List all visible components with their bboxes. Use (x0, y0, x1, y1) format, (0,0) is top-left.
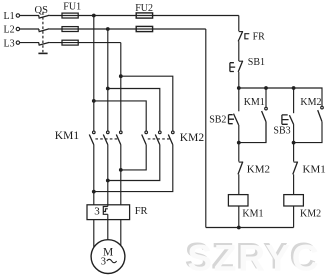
contactor KM2 pole 2 (155, 131, 161, 145)
node L3 terminal (16, 41, 19, 44)
node L1 terminal (16, 14, 19, 17)
node rail-SB3 (292, 86, 296, 90)
switch QS pole 3 (39, 42, 50, 45)
contactor KM1 linkage (95, 138, 119, 140)
svg-text:3: 3 (101, 257, 106, 268)
wire KM2 pole3 return to A (94, 145, 173, 192)
thermal contact FR NC (238, 31, 249, 41)
svg-text:KM2: KM2 (300, 97, 321, 108)
node coil-rail junction (237, 226, 241, 230)
wire crossover B to KM2 pole2 (108, 89, 160, 132)
node rev join (292, 141, 296, 145)
svg-text:FR: FR (253, 31, 266, 42)
fuse FU1c (62, 40, 78, 45)
wire L2 row (20, 28, 39, 30)
node C crossover junction (119, 74, 123, 78)
wire control top rail (239, 88, 322, 106)
wire fwd pair join (239, 122, 266, 143)
fuse FU2b (136, 26, 152, 31)
wire crossover C to KM2 pole1 (121, 76, 173, 131)
wire phase A vertical upper (93, 16, 95, 132)
node B-L2 junction (106, 27, 110, 31)
contactor KM2 pole 1 (142, 131, 148, 145)
switch QS handle (38, 52, 47, 54)
coil KM1 (228, 195, 248, 206)
wire L1 row after switch (49, 15, 239, 17)
node C return junction (119, 168, 123, 172)
wire crossover A to KM2 pole3 (94, 101, 146, 131)
switch QS linkage (42, 12, 44, 52)
wire C to motor (120, 220, 122, 246)
wire KM2 pole1 return to C (121, 145, 146, 170)
pushbutton SB3 NO start rev (282, 88, 294, 143)
interlock KM2 NC (238, 143, 243, 195)
interlock KM1 NC (293, 143, 298, 195)
svg-text:L3: L3 (4, 38, 15, 49)
wire phase C vertical upper (120, 43, 122, 132)
svg-text:KM2: KM2 (180, 132, 205, 144)
wire FR to SB1 (238, 41, 240, 61)
motor M (91, 240, 125, 274)
wire KM2 pole2 return to B (108, 145, 160, 181)
pushbutton SB2 NO start fwd (229, 88, 239, 143)
contactor KM1 pole 3 (116, 131, 122, 145)
svg-text:L1: L1 (4, 11, 15, 22)
wire bottom rail (206, 227, 294, 229)
wire L3 row (20, 42, 39, 44)
svg-text:SZRYC: SZRYC (187, 237, 320, 278)
wire L2 return rail (205, 29, 207, 228)
node B crossover junction (106, 87, 110, 91)
wire phase C vertical lower (120, 145, 122, 205)
contactor KM2 pole 3 (168, 131, 174, 145)
wire phase B vertical lower (107, 145, 109, 207)
switch QS pole 1 (39, 15, 50, 18)
wire phase A vertical lower (93, 145, 95, 205)
pushbutton SB1 NC stop (230, 61, 243, 72)
svg-text:KM2: KM2 (247, 163, 270, 175)
svg-text:FR: FR (135, 206, 148, 217)
svg-text:KM1: KM1 (242, 208, 263, 219)
wire L1 row (20, 15, 39, 17)
svg-text:3: 3 (94, 206, 100, 218)
svg-text:SB1: SB1 (248, 57, 265, 68)
wire phase B vertical upper (107, 29, 109, 131)
svg-text:KM2: KM2 (300, 209, 321, 220)
fuse FU1b (62, 27, 78, 32)
coil KM2 (284, 195, 304, 206)
node B return junction (106, 179, 110, 183)
svg-text:FU1: FU1 (63, 2, 81, 13)
FR heater element (103, 207, 108, 215)
wire L2 row after switch (49, 28, 206, 30)
aux contact KM2 NO (294, 106, 324, 142)
node rail-SB2 (237, 86, 241, 90)
wire L1 control drop (238, 16, 240, 32)
svg-text:SB2: SB2 (209, 115, 226, 126)
fuse FU1a (62, 13, 78, 18)
thermal relay FR heater box (87, 205, 130, 220)
svg-text:L2: L2 (4, 25, 15, 36)
contactor KM1 pole 1 (89, 131, 95, 145)
contactor KM1 pole 2 (103, 131, 109, 145)
node A crossover junction (92, 99, 96, 103)
wire KM1 coil to bottom rail (238, 206, 240, 228)
node A-L1 junction (92, 14, 96, 18)
svg-text:FU2: FU2 (135, 3, 153, 14)
svg-text:SB3: SB3 (273, 126, 290, 137)
svg-text:KM1: KM1 (244, 97, 265, 108)
node A return junction (92, 190, 96, 194)
svg-text:KM1: KM1 (303, 163, 326, 175)
wire L3 row after switch (49, 42, 121, 44)
aux contact KM1 NO (262, 88, 268, 143)
switch QS pole 2 (39, 29, 50, 32)
wire SB1 to rail (238, 72, 240, 88)
node L2 terminal (16, 27, 19, 30)
node fwd join (237, 141, 241, 145)
node rail-KM1aux (264, 86, 268, 90)
watermark SZRYC (185, 234, 321, 278)
svg-text:QS: QS (35, 5, 49, 16)
contactor KM2 linkage (148, 138, 172, 140)
wire B to motor (107, 214, 109, 240)
wire A to motor (93, 220, 95, 248)
fuse FU2a (136, 13, 152, 18)
wire KM2 coil to bottom rail (293, 206, 295, 228)
svg-text:KM1: KM1 (55, 130, 80, 142)
